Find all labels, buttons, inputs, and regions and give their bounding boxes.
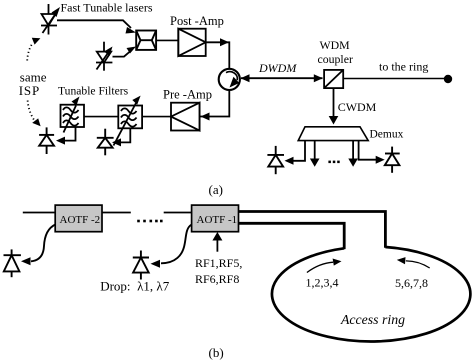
wire demux drop 4 [359, 141, 385, 164]
svg-text:(a): (a) [209, 182, 223, 197]
wire to ring [343, 78, 448, 80]
svg-text:Pre -Amp: Pre -Amp [163, 88, 212, 102]
thick wire AOTF-1 to ring (inner) [239, 223, 345, 249]
wire AOTF-2 drop to PD5 [21, 225, 55, 266]
amplifier Pre-Amp U2 [171, 103, 200, 131]
AOTF-2 [55, 205, 102, 232]
ellipsis between demux drops [328, 161, 339, 164]
wire CWDM [329, 88, 339, 124]
wire coupler to post-amp [156, 39, 178, 41]
ring direction arrow right [397, 257, 430, 268]
svg-text:WDM: WDM [320, 38, 351, 52]
svg-text:to the ring: to the ring [379, 60, 428, 74]
wire AOTF-2 to dots [102, 212, 131, 214]
tunable laser LD1 [41, 4, 60, 35]
dotted arrow same-ISP to PD1 [28, 101, 41, 127]
wire circulator to pre-amp [200, 91, 230, 121]
wire LD1 to coupler [57, 20, 136, 33]
wire demux drop 2 [310, 141, 320, 167]
wire filter TF2 to filter TF1 [84, 116, 118, 118]
svg-text:Fast Tunable lasers: Fast Tunable lasers [61, 1, 153, 15]
AOTF-1 [192, 205, 239, 232]
svg-text:DWDM: DWDM [258, 61, 297, 75]
RF drive arrow into AOTF-1 [212, 232, 222, 252]
wire demux drop 3 [348, 141, 358, 167]
wire filter TF1 drop [56, 127, 76, 145]
svg-text:λ1, λ7: λ1, λ7 [137, 279, 170, 294]
node: ring terminal [444, 75, 452, 83]
wire filter TF2 drop [112, 128, 130, 146]
svg-text:coupler: coupler [318, 52, 353, 66]
svg-text:AOTF -2: AOTF -2 [60, 214, 101, 226]
wire demux drop 1 [285, 141, 306, 165]
WDM coupler [324, 70, 343, 88]
access ring ellipse [272, 247, 470, 342]
svg-text:Post -Amp: Post -Amp [170, 14, 224, 28]
wire into AOTF-2 [23, 212, 55, 214]
coupler [136, 31, 156, 50]
dotted arrow same-ISP to LD1 [27, 38, 40, 61]
svg-text:Tunable Filters: Tunable Filters [58, 85, 129, 98]
svg-text:Demux: Demux [370, 129, 404, 141]
svg-text:RF1,RF5,: RF1,RF5, [195, 256, 242, 270]
svg-text:(b): (b) [209, 345, 224, 360]
svg-text:5,6,7,8: 5,6,7,8 [395, 276, 428, 290]
wire AOTF-1 drop to PD6 [151, 225, 192, 268]
wire DWDM bidirectional [241, 74, 323, 82]
svg-text:RF6,RF8: RF6,RF8 [195, 272, 239, 286]
photodiode PD6 [133, 251, 149, 280]
svg-text:Access ring: Access ring [340, 312, 405, 327]
ring direction arrow left [307, 259, 342, 273]
photodiode PD3 [267, 146, 284, 174]
tunable laser LD2 [96, 42, 113, 71]
demux [298, 127, 368, 141]
thick wire AOTF-1 to ring (outer) [239, 212, 386, 248]
svg-text:CWDM: CWDM [338, 100, 377, 114]
wire dots to AOTF-1 [164, 212, 192, 214]
photodiode PD4 [385, 147, 400, 173]
photodiode PD2 [97, 129, 114, 156]
svg-text:ISP: ISP [19, 83, 40, 98]
svg-text:Drop:: Drop: [100, 279, 130, 294]
circulator [219, 69, 240, 90]
svg-text:AOTF -1: AOTF -1 [197, 214, 238, 226]
photodiode PD5 [4, 249, 21, 277]
wire LD2 to coupler [113, 47, 137, 57]
ellipsis dots between AOTFs [137, 220, 162, 223]
svg-text:1,2,3,4: 1,2,3,4 [306, 276, 339, 290]
tunable filter TF1 [61, 97, 85, 133]
amplifier Post-Amp U1 [178, 29, 205, 56]
photodiode PD1 [39, 127, 54, 154]
tunable filter TF2 [114, 96, 143, 146]
wire post-amp to circulator [206, 38, 230, 68]
wire pre-amp to filter TF2 [142, 116, 171, 118]
